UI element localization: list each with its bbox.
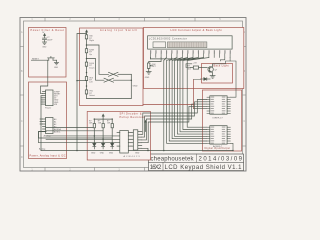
block Back Light (transistor driver) xyxy=(202,64,233,84)
power symbol +5V (SPI connector) xyxy=(144,120,146,131)
sheet border inner frame xyxy=(24,21,243,168)
wire +5V vertical rail (between blocks) xyxy=(76,34,86,152)
transistor Q1 backlight xyxy=(208,64,218,76)
pin label smudges J4 xyxy=(211,97,226,114)
svg-text:ACM4023: ACM4023 xyxy=(124,155,141,158)
svg-text:GND: GND xyxy=(135,153,140,155)
wire A4 net to SPI block xyxy=(46,130,103,132)
svg-text:LCD Contrast Adjust & Back Lig: LCD Contrast Adjust & Back Light xyxy=(171,29,222,32)
wire SPI rows exit right (staircase up) xyxy=(142,113,151,151)
resistor R2 330 (Right) xyxy=(85,35,94,49)
wire MOSI net box B to IC xyxy=(46,139,120,141)
svg-text:GND: GND xyxy=(91,153,96,155)
block LCD Contrast Adjust & Back Light xyxy=(144,28,244,89)
title block text author/date xyxy=(151,157,243,163)
wire ground rail bottom xyxy=(41,150,233,152)
LCD screen cell bar xyxy=(167,42,207,48)
node ladder tap 2 xyxy=(86,58,88,60)
svg-text:LCD Keypad Shield V1.1: LCD Keypad Shield V1.1 xyxy=(165,165,243,171)
border column ticks top xyxy=(45,18,195,22)
pin labels J2 xyxy=(54,118,61,134)
connector J2 ANALOG header xyxy=(43,118,54,134)
wire R5 tap to rail xyxy=(77,80,87,82)
wire LCD pin15 to backlight xyxy=(220,58,225,62)
resistor R10 pullup xyxy=(107,120,114,143)
wire fan LCD pins into bundle xyxy=(164,58,209,61)
pushbutton RESET xyxy=(31,56,56,62)
power symbol +5V (SPI pullups) xyxy=(102,114,104,119)
connector J1 POWER header xyxy=(43,90,54,106)
border row ticks right xyxy=(243,47,247,147)
border row ticks left xyxy=(20,47,24,147)
wire bundle verticals to digital header (staircase) xyxy=(164,61,207,151)
svg-text:+5V: +5V xyxy=(193,62,197,64)
border zone numbers xyxy=(21,19,246,171)
sheet border outer frame xyxy=(20,18,246,172)
pin label smudges J5 xyxy=(211,127,226,144)
resistor R9 pullup xyxy=(98,120,105,143)
node ladder tap 1 xyxy=(86,44,88,46)
svg-text:AQR05-?: AQR05-? xyxy=(213,145,223,148)
svg-text:GND: GND xyxy=(145,77,150,79)
svg-text:IOREF-C?: IOREF-C? xyxy=(213,118,224,120)
svg-text:LCD1602/0802 Connector: LCD1602/0802 Connector xyxy=(149,37,187,41)
resistor R5 3K3 (Left) xyxy=(85,77,93,90)
svg-text:Power: Power xyxy=(45,107,51,110)
block Analog Input Switch xyxy=(80,28,144,106)
LCD pin stubs xyxy=(151,54,231,58)
svg-text:Power, Analog Input & I2C: Power, Analog Input & I2C xyxy=(30,154,66,157)
trimpot RP1 10K contrast xyxy=(148,58,162,72)
svg-text:cheaphousetek: cheaphousetek xyxy=(151,157,195,163)
border column ticks bottom xyxy=(45,168,195,172)
resistor R6 7K0 (Select) xyxy=(85,90,95,99)
wire J5 right stub to ground rail xyxy=(230,143,233,150)
diode D4 xyxy=(111,143,114,149)
connector LCD1602/0802 xyxy=(148,36,233,49)
svg-text:100nF: 100nF xyxy=(47,39,53,41)
wire LCD pin16 to collector xyxy=(213,58,231,64)
ground (below C1) xyxy=(42,42,47,48)
svg-text:Analog: Analog xyxy=(39,147,45,150)
svg-text:GND: GND xyxy=(133,86,138,88)
block Power Filter & Reset xyxy=(29,28,67,78)
svg-text:GND: GND xyxy=(109,153,114,155)
pushbutton SW2 (bowtie) xyxy=(104,78,131,82)
svg-text:16X2: 16X2 xyxy=(150,165,162,171)
node ladder tap 3 xyxy=(86,72,88,74)
wire tap1 to button row 1 xyxy=(87,45,109,74)
wire buttons common to ladder bottom xyxy=(87,74,133,98)
wire /CS net box B to IC xyxy=(46,135,120,137)
wire D10 control net (red) xyxy=(143,80,194,109)
title block xyxy=(149,154,244,171)
wire SCK net box B to IC xyxy=(39,132,120,144)
title block text name xyxy=(150,165,242,171)
LCD pin number/name labels (rotated smudges) xyxy=(150,50,231,53)
wire LCD ground bus xyxy=(151,58,197,60)
wire A5 net to SPI block xyxy=(39,132,113,139)
ground (backlight emitter) xyxy=(210,76,215,79)
wire backlight D10 to J4 xyxy=(230,61,236,97)
ground labels (pullup diodes) xyxy=(91,153,114,155)
ground (reset button) xyxy=(54,62,59,68)
resistor R7 backlight 101 xyxy=(188,65,208,70)
ground (trimpot) xyxy=(145,72,151,79)
connector J3 SPI breakout xyxy=(131,130,142,150)
pin labels J1 xyxy=(54,91,61,106)
block Power, Analog Input & I2C xyxy=(29,82,67,159)
wire tap2 to button row 2 xyxy=(87,59,105,81)
label +5V (backlight feed) xyxy=(186,62,197,67)
resistor R3 620R (Up) xyxy=(85,49,94,62)
ic U1 SPI decoder xyxy=(117,131,140,159)
svg-text:Select: Select xyxy=(89,94,95,97)
resistor R4 1K00 (Down) xyxy=(85,62,95,76)
svg-text:Down: Down xyxy=(89,67,94,69)
wire A3 net to SPI block xyxy=(46,127,94,129)
block SPI Decoder & Pullup Resistors xyxy=(87,112,150,161)
svg-text:Back Light: Back Light xyxy=(214,65,229,68)
wire pullup supply bus xyxy=(94,118,113,123)
wire reset net to power header xyxy=(41,60,48,93)
wire SPI nets to digital header J4 xyxy=(151,100,207,123)
svg-text:Right: Right xyxy=(89,39,94,42)
diode D1 (backlight) xyxy=(201,78,211,81)
power symbol +5V (box A) xyxy=(42,32,46,38)
resistor R8 pullup xyxy=(89,120,96,143)
capacitor C1 100nF xyxy=(42,37,53,42)
pushbutton SW1 (bowtie) xyxy=(109,72,132,76)
svg-text:GND: GND xyxy=(54,67,59,69)
svg-text:GND: GND xyxy=(100,153,105,155)
diode D3 xyxy=(102,143,105,149)
connector J5 digital header lower xyxy=(207,126,231,144)
svg-text:Power Filter & Reset: Power Filter & Reset xyxy=(31,29,65,32)
connector J4 digital header upper xyxy=(207,96,231,114)
svg-text:Analog Input Switch: Analog Input Switch xyxy=(100,29,138,32)
diode D2 xyxy=(93,143,96,149)
block Digital Input/Output xyxy=(202,90,241,151)
svg-text:2014/03/09: 2014/03/09 xyxy=(199,157,243,163)
svg-text:GND: GND xyxy=(42,46,47,48)
svg-text:Pullup Resistors: Pullup Resistors xyxy=(120,116,146,119)
power symbol +5V (ladder top) xyxy=(85,30,87,35)
svg-text:Left: Left xyxy=(89,81,93,84)
wire J2 stubs left xyxy=(40,119,43,124)
wire J1 left bus down xyxy=(41,96,43,151)
node ladder tap 4 xyxy=(86,85,88,87)
svg-text:RESET: RESET xyxy=(32,58,39,60)
